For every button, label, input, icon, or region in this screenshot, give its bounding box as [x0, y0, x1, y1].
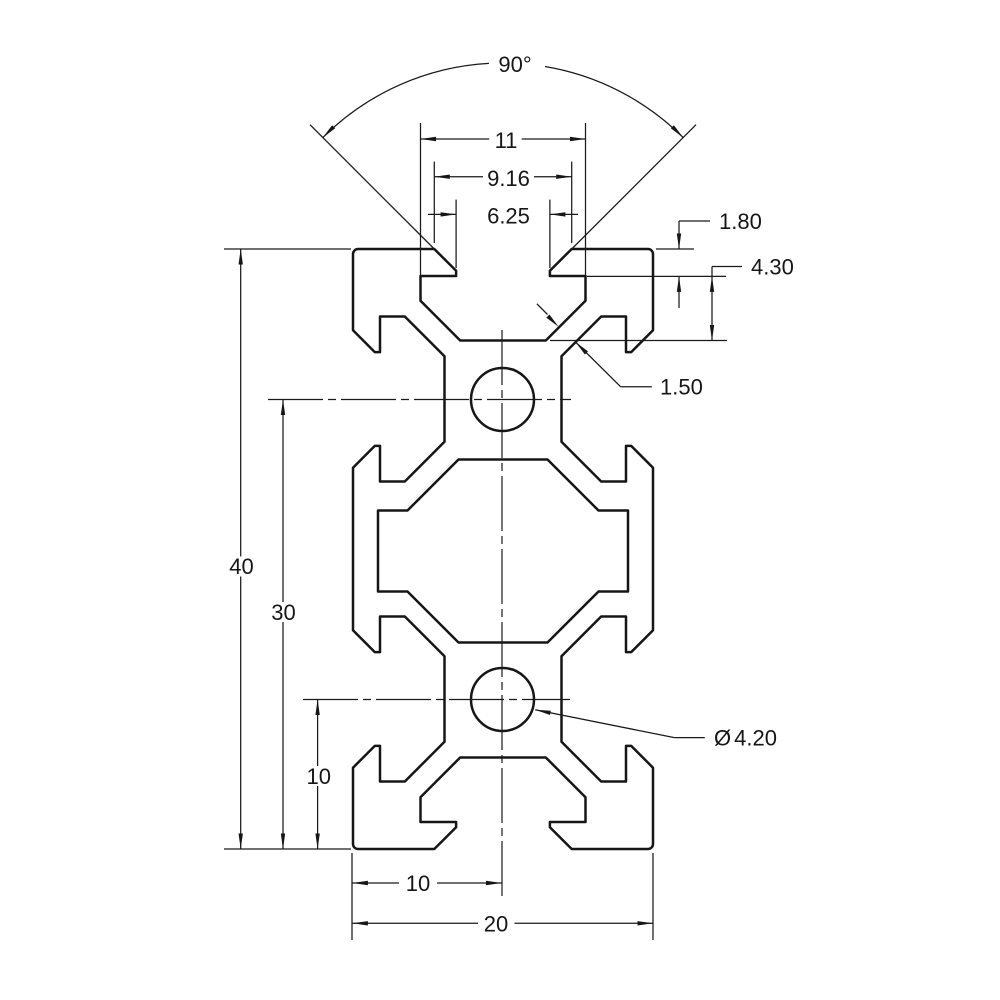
- extrusion outer profile outline: [353, 249, 653, 849]
- bottom extension lines: [351, 853, 353, 940]
- center bore bottom (diameter 4.20): [471, 668, 534, 731]
- svg-text:90°: 90°: [498, 52, 531, 77]
- svg-text:1.50: 1.50: [660, 375, 703, 400]
- dimension 10 (bottom): [352, 882, 399, 884]
- horizontal centerline bottom bore: [303, 699, 570, 701]
- svg-text:11: 11: [495, 128, 518, 153]
- svg-text:1.80: 1.80: [719, 209, 762, 234]
- svg-text:10: 10: [406, 871, 430, 896]
- dimension 4.30 (slot cavity depth): [712, 266, 742, 268]
- dimension 40 (overall height): [240, 249, 242, 557]
- dimension 30: [282, 400, 284, 603]
- svg-text:40: 40: [229, 554, 253, 579]
- svg-text:4.30: 4.30: [751, 255, 794, 280]
- vertical centerline: [501, 330, 503, 900]
- dimension 6.25 (slot throat width): [455, 200, 457, 268]
- dimension 90 degrees with arc and extension legs: [310, 125, 434, 249]
- svg-text:10: 10: [307, 764, 331, 789]
- svg-text:20: 20: [484, 911, 508, 936]
- center bore top (diameter 4.20): [471, 368, 534, 431]
- dimension 10 (left): [317, 700, 319, 767]
- dimension 1.80 (lip depth): [679, 220, 710, 222]
- svg-text:Ø4.20: Ø4.20: [714, 726, 777, 751]
- leader diameter 4.20 (bore): [535, 710, 674, 738]
- svg-text:9.16: 9.16: [487, 166, 530, 191]
- leader 1.50 (wall thickness, opposed arrows): [576, 342, 621, 387]
- left extension lines: [224, 248, 351, 250]
- dimension 9.16 (slot mouth width): [433, 162, 435, 243]
- horizontal centerline top bore: [268, 399, 571, 401]
- svg-text:30: 30: [271, 600, 295, 625]
- right extension lines: [656, 248, 694, 250]
- dimension 20 (overall width): [352, 922, 478, 924]
- svg-text:6.25: 6.25: [487, 204, 530, 229]
- central cavity contour: [378, 460, 628, 643]
- dimension 11 (slot cavity width): [420, 123, 422, 276]
